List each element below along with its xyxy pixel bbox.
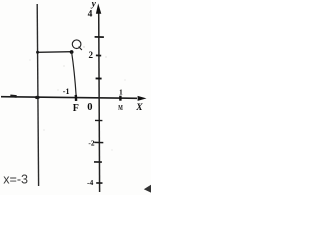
svg-text:2: 2 [89, 50, 94, 60]
svg-text:-4: -4 [87, 178, 94, 187]
svg-text:-2: -2 [88, 139, 94, 148]
svg-text:1: 1 [119, 88, 123, 97]
svg-text:0: 0 [87, 102, 92, 113]
svg-text:-1: -1 [63, 87, 70, 96]
svg-text:y: y [91, 0, 97, 9]
svg-text:M: M [118, 103, 123, 112]
svg-text:F: F [73, 103, 79, 114]
svg-text:4: 4 [88, 10, 93, 20]
svg-text:x=-3: x=-3 [3, 172, 28, 186]
svg-text:X: X [135, 103, 143, 113]
